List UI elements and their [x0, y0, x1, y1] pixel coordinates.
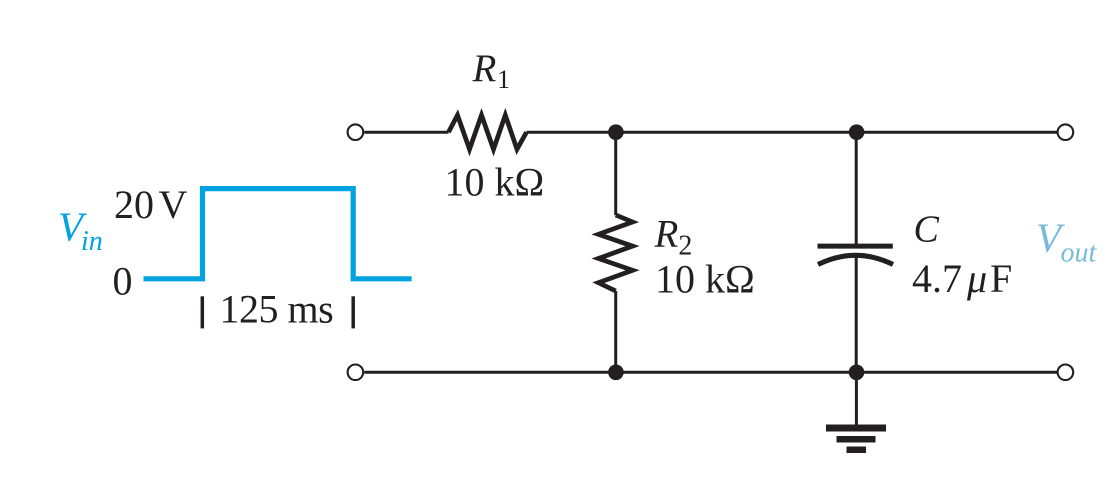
wire C lower — [855, 256, 858, 372]
resistor R1 — [449, 115, 527, 149]
capacitor C — [818, 246, 894, 264]
terminal top-left — [348, 124, 364, 140]
wire bottom rail — [364, 371, 1057, 374]
svg-text:R: R — [472, 47, 497, 90]
svg-text:in: in — [81, 226, 103, 257]
junction bottom at C — [849, 365, 865, 381]
terminal bottom-right — [1058, 365, 1074, 381]
wire C upper — [855, 132, 858, 246]
junction top at C — [849, 124, 865, 140]
value label 4.7 uF — [912, 256, 1012, 301]
input pulse waveform Vin — [144, 189, 412, 279]
junction top at R2 — [608, 124, 624, 140]
resistor R2 — [598, 215, 632, 291]
node Vout label — [1036, 214, 1098, 268]
wire top-left (terminal to R1) — [364, 131, 448, 134]
label R2 — [654, 212, 693, 261]
svg-text:F: F — [990, 256, 1012, 301]
terminal top-right — [1058, 124, 1074, 140]
wire top middle (R1 to right terminal) — [527, 131, 1058, 134]
svg-text:R: R — [654, 212, 679, 255]
svg-text:10 kΩ: 10 kΩ — [445, 159, 545, 204]
svg-text:4.7: 4.7 — [912, 256, 962, 301]
node Vin label — [58, 204, 103, 258]
label R1 — [472, 47, 511, 94]
svg-text:μ: μ — [966, 256, 987, 301]
svg-text:out: out — [1061, 238, 1098, 269]
wire R2 lower — [614, 291, 617, 372]
terminal bottom-left — [348, 365, 364, 381]
svg-text:1: 1 — [497, 64, 510, 94]
svg-text:0: 0 — [113, 259, 133, 304]
tick mark left (125 ms span) — [201, 296, 205, 328]
junction bottom at R2 — [608, 365, 624, 381]
svg-text:125 ms: 125 ms — [220, 287, 334, 332]
svg-text:C: C — [914, 208, 940, 250]
wire R2 upper — [614, 132, 617, 215]
svg-text:20V: 20V — [114, 182, 188, 227]
ground — [826, 425, 886, 454]
tick mark right (125 ms span) — [351, 296, 355, 328]
svg-text:10 kΩ: 10 kΩ — [655, 257, 755, 302]
wire to ground — [855, 372, 858, 425]
